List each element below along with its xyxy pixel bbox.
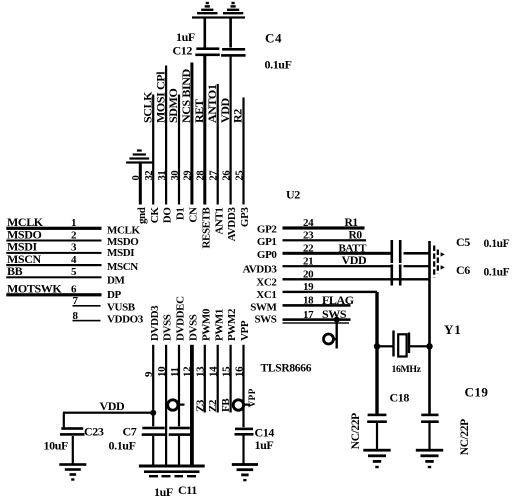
svg-text:8: 8 bbox=[73, 310, 79, 322]
svg-text:TLSR8666: TLSR8666 bbox=[261, 363, 312, 375]
svg-text:14: 14 bbox=[208, 366, 220, 377]
svg-text:0.1uF: 0.1uF bbox=[484, 266, 510, 278]
svg-text:BB: BB bbox=[7, 264, 23, 278]
svg-text:32: 32 bbox=[144, 171, 155, 181]
svg-text:0.1uF: 0.1uF bbox=[484, 238, 510, 250]
svg-text:gnd: gnd bbox=[136, 207, 148, 224]
svg-text:GP1: GP1 bbox=[257, 236, 277, 248]
svg-text:XC2: XC2 bbox=[256, 277, 277, 289]
svg-text:17: 17 bbox=[303, 309, 314, 321]
svg-text:0.1uF: 0.1uF bbox=[265, 58, 292, 72]
svg-text:XC1: XC1 bbox=[256, 289, 276, 301]
svg-text:VUSB: VUSB bbox=[107, 302, 136, 314]
svg-text:AVDD3: AVDD3 bbox=[243, 264, 278, 276]
svg-text:RESETB: RESETB bbox=[200, 206, 212, 248]
svg-text:C12: C12 bbox=[173, 44, 193, 58]
svg-text:7: 7 bbox=[73, 295, 79, 307]
svg-text:C18: C18 bbox=[390, 391, 410, 405]
svg-text:DO: DO bbox=[162, 207, 174, 224]
svg-text:16: 16 bbox=[233, 366, 245, 377]
svg-text:NC/22P: NC/22P bbox=[350, 413, 362, 449]
svg-text:25: 25 bbox=[234, 171, 245, 181]
svg-text:GP2: GP2 bbox=[257, 224, 277, 236]
svg-text:R0: R0 bbox=[349, 229, 363, 241]
svg-text:VPP: VPP bbox=[239, 320, 251, 341]
svg-text:1uF: 1uF bbox=[255, 438, 274, 452]
svg-text:VDD: VDD bbox=[342, 253, 368, 267]
svg-text:DVSS: DVSS bbox=[162, 314, 174, 341]
svg-text:C23: C23 bbox=[84, 425, 104, 439]
svg-text:GP3: GP3 bbox=[239, 207, 251, 227]
svg-text:NCS BIND: NCS BIND bbox=[179, 68, 193, 123]
svg-text:R1: R1 bbox=[345, 217, 359, 229]
svg-text:DVSS: DVSS bbox=[188, 314, 200, 341]
svg-text:3: 3 bbox=[71, 242, 77, 254]
svg-text:9: 9 bbox=[143, 371, 155, 377]
svg-text:PWM0: PWM0 bbox=[200, 308, 212, 341]
svg-text:0.1uF: 0.1uF bbox=[109, 438, 136, 452]
svg-text:12: 12 bbox=[182, 366, 194, 377]
svg-text:AVDD3: AVDD3 bbox=[226, 207, 238, 242]
svg-text:NC/22P: NC/22P bbox=[459, 419, 471, 455]
svg-text:SWS: SWS bbox=[254, 313, 276, 325]
svg-text:PWM1: PWM1 bbox=[213, 309, 225, 341]
svg-text:DP: DP bbox=[107, 289, 122, 301]
svg-text:C7: C7 bbox=[123, 424, 137, 438]
svg-text:31: 31 bbox=[157, 171, 168, 181]
svg-text:VDD: VDD bbox=[100, 399, 126, 413]
svg-text:24: 24 bbox=[303, 217, 314, 229]
svg-text:20: 20 bbox=[303, 269, 314, 281]
svg-text:C5: C5 bbox=[456, 235, 470, 249]
svg-text:1uF: 1uF bbox=[176, 30, 195, 44]
svg-text:SWM: SWM bbox=[250, 301, 277, 313]
svg-text:11: 11 bbox=[169, 367, 181, 377]
svg-text:D1: D1 bbox=[175, 208, 187, 221]
svg-text:28: 28 bbox=[196, 171, 207, 181]
svg-text:CN: CN bbox=[188, 207, 200, 223]
svg-text:FB: FB bbox=[220, 398, 232, 412]
svg-text:10: 10 bbox=[156, 366, 168, 377]
svg-text:30: 30 bbox=[170, 171, 181, 181]
svg-text:22: 22 bbox=[303, 243, 314, 255]
svg-text:MOSI CPl: MOSI CPl bbox=[153, 71, 167, 123]
svg-text:15: 15 bbox=[220, 366, 232, 377]
svg-text:R2: R2 bbox=[231, 109, 245, 123]
svg-text:CK: CK bbox=[149, 207, 161, 224]
svg-text:2: 2 bbox=[71, 229, 77, 241]
svg-text:Z3: Z3 bbox=[194, 399, 206, 412]
svg-text:U2: U2 bbox=[286, 188, 300, 202]
svg-text:PWM2: PWM2 bbox=[226, 308, 238, 341]
svg-text:VDDO3: VDDO3 bbox=[107, 314, 144, 326]
svg-text:C19: C19 bbox=[465, 385, 489, 400]
svg-text:C4: C4 bbox=[265, 31, 282, 46]
svg-text:VDD: VDD bbox=[218, 97, 232, 123]
svg-text:Z2: Z2 bbox=[207, 399, 219, 412]
svg-text:0: 0 bbox=[131, 176, 142, 181]
svg-text:MSDI: MSDI bbox=[107, 247, 134, 259]
svg-text:27: 27 bbox=[209, 171, 220, 181]
svg-text:ANTO1: ANTO1 bbox=[205, 84, 219, 123]
svg-text:13: 13 bbox=[195, 366, 207, 377]
svg-text:MCLK: MCLK bbox=[107, 225, 140, 237]
svg-text:16MHz: 16MHz bbox=[392, 364, 422, 375]
svg-text:21: 21 bbox=[303, 255, 313, 267]
svg-text:1: 1 bbox=[71, 217, 76, 229]
svg-text:19: 19 bbox=[303, 281, 314, 293]
svg-text:18: 18 bbox=[303, 295, 314, 307]
svg-text:DVDD3: DVDD3 bbox=[149, 305, 161, 341]
svg-text:GP0: GP0 bbox=[257, 249, 277, 261]
svg-text:C6: C6 bbox=[456, 263, 470, 277]
svg-text:23: 23 bbox=[303, 230, 314, 242]
svg-text:RET: RET bbox=[192, 99, 206, 123]
svg-text:26: 26 bbox=[221, 171, 232, 181]
svg-text:MSCN: MSCN bbox=[107, 261, 138, 273]
svg-text:FLAG: FLAG bbox=[322, 293, 354, 307]
svg-text:MOTSWK: MOTSWK bbox=[7, 282, 62, 296]
svg-text:1uF: 1uF bbox=[154, 485, 173, 499]
svg-text:Y1: Y1 bbox=[444, 322, 462, 337]
svg-text:C11: C11 bbox=[178, 483, 197, 497]
svg-text:DVDDEC: DVDDEC bbox=[175, 296, 187, 341]
svg-text:29: 29 bbox=[183, 171, 194, 181]
svg-text:6: 6 bbox=[71, 284, 77, 296]
svg-text:SDMO: SDMO bbox=[166, 89, 180, 123]
svg-text:10uF: 10uF bbox=[44, 439, 68, 453]
svg-text:SCLK: SCLK bbox=[140, 91, 154, 123]
svg-text:DM: DM bbox=[107, 275, 126, 287]
svg-text:4: 4 bbox=[71, 254, 77, 266]
svg-text:ANT1: ANT1 bbox=[213, 208, 225, 235]
svg-text:5: 5 bbox=[71, 266, 77, 278]
